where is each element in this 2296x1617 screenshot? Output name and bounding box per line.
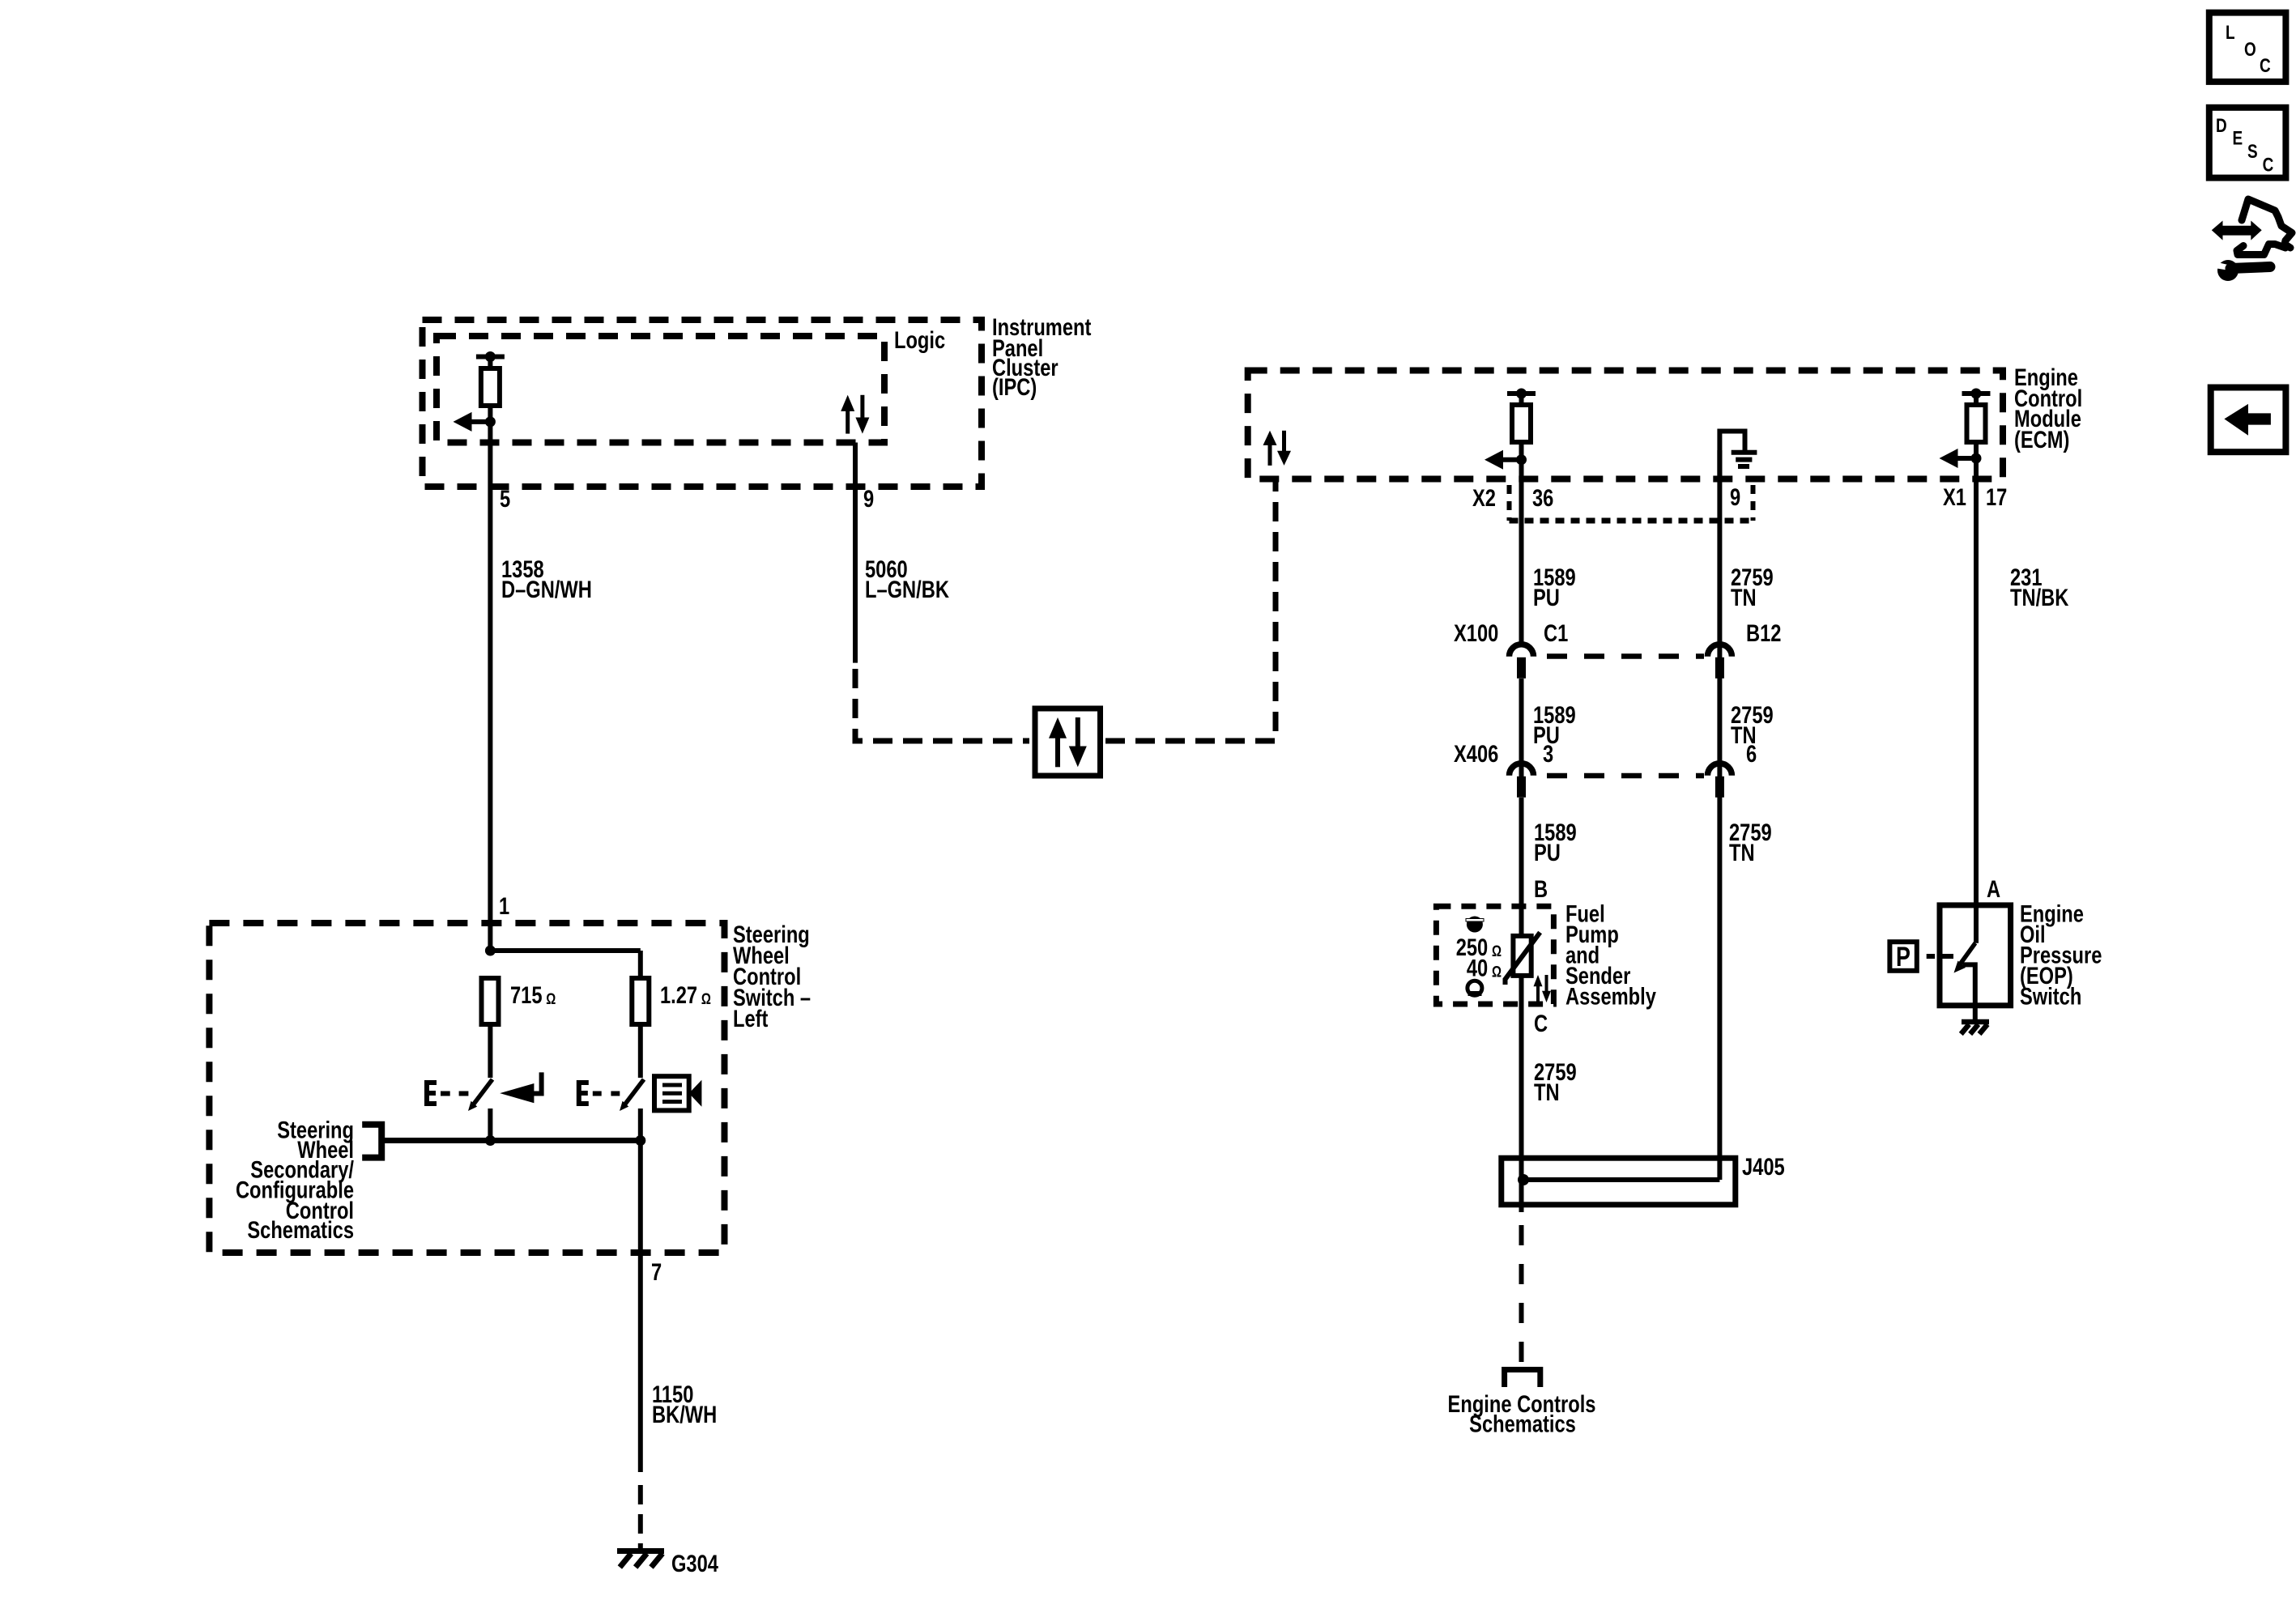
switch blade (right, voice recognition)	[624, 1079, 644, 1106]
svg-text:7: 7	[651, 1258, 662, 1285]
wire: 1589 PU (middle)	[1519, 679, 1524, 777]
wire: EOP to ground	[1973, 1006, 1978, 1021]
connector X2 dashed outline	[1507, 485, 1512, 521]
svg-text:C: C	[2260, 54, 2271, 77]
svg-text:36: 36	[1532, 484, 1553, 511]
wire: ECM pin 9 drop (2759)	[1717, 450, 1722, 1180]
EOP fixed contact	[1962, 964, 1975, 1005]
svg-text:9: 9	[863, 485, 874, 512]
svg-text:1.27 Ω: 1.27 Ω	[660, 981, 711, 1008]
wire: 2759 TN (middle)	[1731, 701, 1774, 748]
svg-text:O: O	[2244, 38, 2256, 61]
svg-text:Switch: Switch	[2020, 983, 2081, 1010]
sender arrows	[1534, 975, 1543, 986]
icon: vehicle data link (arrows + connector + wrench)	[2212, 221, 2262, 240]
wire label: 231 TN/BK	[2010, 564, 2069, 611]
connector X100 C1 (inline)	[1510, 645, 1534, 657]
splice pack J405	[1502, 1158, 1736, 1205]
svg-text:715 Ω: 715 Ω	[510, 981, 556, 1008]
serial data arrows (ECM edge)	[1263, 431, 1277, 445]
logic box inside IPC	[437, 336, 884, 443]
wire: IPC pin 5 drop (1358)	[488, 422, 492, 951]
svg-text:9: 9	[1730, 483, 1740, 510]
label: Engine Controls Schematics	[1448, 1390, 1596, 1437]
node: ECM pin36 junction with signal arrow	[1516, 454, 1527, 465]
svg-text:TN/BK: TN/BK	[2010, 584, 2069, 611]
wire: ground bus	[385, 1138, 641, 1143]
switch blade (left, return/end call)	[472, 1079, 492, 1106]
label: Steering Wheel Secondary/Configurable Control Schematics	[236, 1117, 354, 1244]
svg-text:C: C	[2263, 153, 2274, 176]
label: Engine Control Module (ECM)	[2014, 364, 2082, 453]
dashed connector pair line X100	[1547, 653, 1704, 659]
resistor (ECM pin 17 pull-up)	[1962, 391, 1991, 396]
svg-text:1: 1	[499, 892, 509, 919]
module box: Instrument Panel Cluster (IPC)	[423, 320, 982, 487]
svg-text:X2: X2	[1472, 484, 1496, 511]
node: splice junction	[1518, 1174, 1529, 1185]
dashed connector pair line X406	[1547, 773, 1704, 779]
resistor (IPC internal pull-up)	[476, 355, 505, 360]
off-page bracket: Steering Wheel Secondary	[362, 1125, 381, 1158]
wire label: 1589 PU (top)	[1533, 564, 1576, 611]
svg-text:6: 6	[1746, 740, 1757, 767]
label: Fuel Pump and Sender Assembly	[1565, 900, 1656, 1010]
wire: dashed lead to engine controls schematics	[1519, 1225, 1524, 1362]
wire: 1150 BK/WH drop	[638, 1141, 643, 1473]
wire: right resistor to switch	[638, 1024, 643, 1078]
svg-text:Schematics: Schematics	[1469, 1411, 1576, 1437]
wire: resistor to node	[488, 406, 492, 422]
svg-text:3: 3	[1543, 740, 1553, 767]
module box: Engine Control Module (ECM)	[1248, 371, 2003, 479]
svg-text:17: 17	[1986, 483, 2007, 510]
svg-text:B: B	[1534, 875, 1548, 902]
svg-text:L: L	[2226, 21, 2235, 44]
connector X406 3 (inline)	[1510, 764, 1534, 776]
svg-text:X406: X406	[1454, 740, 1498, 767]
pressure actuator P symbol	[1889, 942, 1916, 971]
EOP switch blade	[1974, 905, 1979, 943]
module box: Steering Wheel Control Switch - Left	[209, 923, 724, 1253]
serial data symbol box	[1035, 709, 1101, 776]
svg-text:TN: TN	[1731, 584, 1757, 611]
label: Instrument Panel Cluster (IPC)	[992, 313, 1091, 400]
wire: serial data dashed link (left, to serial box)	[855, 669, 1029, 741]
svg-text:PU: PU	[1533, 584, 1560, 611]
node: bus junction left	[485, 1135, 496, 1146]
serial data arrows (IPC logic, pin 9 side)	[841, 395, 854, 411]
svg-text:S: S	[2247, 140, 2258, 163]
svg-text:BK/WH: BK/WH	[652, 1401, 717, 1428]
svg-text:Left: Left	[733, 1005, 768, 1032]
gauge full dot	[1467, 917, 1483, 933]
node: ECM pin17 junction with signal arrow	[1971, 453, 1982, 464]
wire: ECM pin 36 drop (1589)	[1519, 460, 1524, 642]
wire: switches to ground bus	[488, 1108, 492, 1141]
svg-text:A: A	[1987, 875, 2000, 902]
wire: dashed ground lead	[638, 1485, 643, 1504]
wire label: 2759 TN (top)	[1731, 564, 1774, 611]
svg-text:D–GN/WH: D–GN/WH	[501, 576, 592, 602]
wire: ECM pin 17 drop (231)	[1974, 458, 1979, 905]
wire label: 2759 TN (pump ground)	[1534, 1058, 1577, 1105]
svg-text:Assembly: Assembly	[1565, 983, 1656, 1010]
icon: back arrow box	[2211, 388, 2286, 453]
svg-text:C: C	[1534, 1010, 1548, 1036]
svg-text:X100: X100	[1454, 619, 1498, 646]
resistor 1.27 ohm	[632, 978, 649, 1024]
resistor (ECM pin 36 pull-up)	[1507, 391, 1536, 396]
svg-text:C1: C1	[1544, 619, 1568, 646]
ECM internal ground (pin 9)	[1719, 432, 1744, 482]
module box: Fuel Pump and Sender Assembly	[1436, 906, 1553, 1004]
node: branch junction	[485, 946, 496, 956]
node: bus junction right	[635, 1135, 645, 1146]
component box: Engine Oil Pressure (EOP) Switch	[1940, 905, 2011, 1006]
switch actuator E (left)	[427, 1083, 437, 1104]
ground G304	[617, 1548, 664, 1554]
node: IPC resistor junction with signal arrow	[485, 416, 496, 427]
splice bus bar	[1523, 1177, 1719, 1182]
svg-text:(ECM): (ECM)	[2014, 426, 2069, 453]
label: Steering Wheel Control Switch - Left	[733, 921, 811, 1032]
wire: serial data dashed link (right, to ECM)	[1105, 481, 1276, 741]
svg-text:Logic: Logic	[894, 326, 945, 353]
svg-text:TN: TN	[1729, 839, 1755, 866]
wire label: 5060 L-GN/BK	[865, 555, 949, 602]
connector X100 B12 (inline)	[1707, 645, 1732, 657]
resistor 715 ohm	[482, 978, 499, 1024]
wire label: 1358 D-GN/WH	[501, 555, 592, 602]
svg-text:Schematics: Schematics	[247, 1217, 354, 1244]
wire: branch to right resistor	[490, 948, 640, 953]
variable resistor (fuel level sender)	[1513, 936, 1531, 976]
svg-text:L–GN/BK: L–GN/BK	[865, 576, 949, 602]
svg-text:E: E	[2233, 126, 2243, 149]
gauge empty circle	[1467, 981, 1482, 995]
svg-text:D: D	[2216, 114, 2227, 137]
ground (EOP switch case)	[1962, 1019, 1989, 1025]
svg-text:B12: B12	[1746, 619, 1781, 646]
wire label: 2759 TN (lower right)	[1729, 819, 1772, 866]
svg-text:G304: G304	[671, 1550, 718, 1577]
wire: left wire through J405	[1519, 1158, 1524, 1212]
wire: 1589 PU (lower)	[1519, 798, 1524, 936]
svg-text:TN: TN	[1534, 1079, 1560, 1105]
icon: return arrow (left switch)	[500, 1083, 534, 1103]
wire: IPC pin 9 drop (5060)	[853, 443, 858, 663]
wire: sender to pin C	[1519, 976, 1524, 1158]
connector X406 6 (inline)	[1707, 764, 1732, 776]
svg-text:P: P	[1896, 942, 1910, 972]
label: Engine Oil Pressure (EOP) Switch	[2020, 900, 2102, 1010]
off-page bracket: Engine Controls Schematics	[1505, 1370, 1540, 1388]
icon: list box + speak triangle (right switch)	[654, 1076, 689, 1110]
svg-text:J405: J405	[1742, 1153, 1785, 1180]
svg-text:(IPC): (IPC)	[992, 373, 1037, 400]
icon: DESC box	[2209, 108, 2286, 178]
svg-text:5: 5	[500, 485, 510, 512]
wire label: 1150 BK/WH	[652, 1381, 717, 1428]
switch actuator E (right)	[579, 1083, 589, 1104]
wire: left resistor to switch	[488, 1024, 492, 1078]
icon: LOC box	[2209, 13, 2286, 82]
svg-text:PU: PU	[1534, 839, 1561, 866]
svg-text:X1: X1	[1943, 483, 1966, 510]
